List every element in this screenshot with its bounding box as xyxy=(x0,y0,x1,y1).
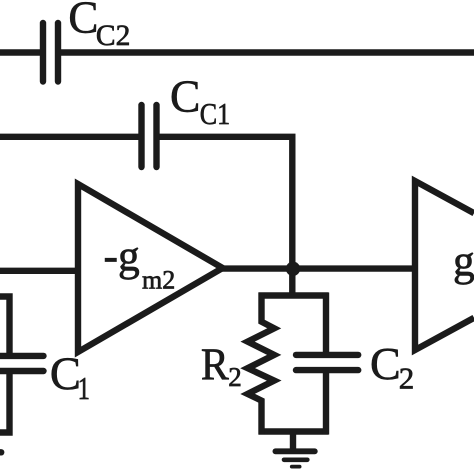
svg-text:C2: C2 xyxy=(96,20,130,52)
wire C1 bottom to left edge xyxy=(0,374,10,433)
svg-text:C: C xyxy=(50,349,81,400)
capacitor C1 plates (clipped at left edge) xyxy=(0,356,44,371)
svg-text:m2: m2 xyxy=(142,265,175,294)
capacitor CC1 xyxy=(142,105,157,167)
svg-text:C: C xyxy=(370,338,401,389)
svg-text:1: 1 xyxy=(78,372,90,407)
capacitor C2 plates xyxy=(296,355,358,370)
wire top-left to CC2 xyxy=(0,49,41,55)
R2C2 box bottom bar xyxy=(259,428,329,434)
op-amp U2 gm3 triangle (clipped at right edge) xyxy=(415,181,474,350)
svg-text:C: C xyxy=(170,70,200,121)
capacitor C2 stem top xyxy=(323,293,329,353)
wire -gm2 output to gm3 input xyxy=(220,265,415,271)
resistor R2 zigzag xyxy=(248,293,275,435)
svg-text:C1: C1 xyxy=(200,97,230,132)
capacitor CC2 xyxy=(43,23,58,82)
svg-text:R: R xyxy=(201,339,230,390)
ground fragment at left edge xyxy=(0,449,1,455)
capacitor C2 stem bottom xyxy=(323,373,329,435)
wire left edge to CC1 xyxy=(0,134,140,140)
svg-text:g: g xyxy=(453,237,474,285)
ground stem below R2C2 xyxy=(290,431,296,449)
svg-text:C: C xyxy=(68,0,98,42)
svg-text:2: 2 xyxy=(228,362,242,392)
ground symbol bars xyxy=(275,451,314,466)
op-amp U1 -gm2 triangle xyxy=(78,184,223,352)
wire CC2 to right edge xyxy=(60,49,474,55)
svg-text:2: 2 xyxy=(399,360,415,395)
junction node dot xyxy=(286,262,300,276)
wire left edge down to C1 (top) xyxy=(0,297,10,354)
svg-text:-g: -g xyxy=(104,232,140,280)
wire CC1 right then down to node xyxy=(158,137,292,298)
wire input to -gm2 xyxy=(0,268,80,274)
R2C2 box top bar xyxy=(259,292,329,298)
